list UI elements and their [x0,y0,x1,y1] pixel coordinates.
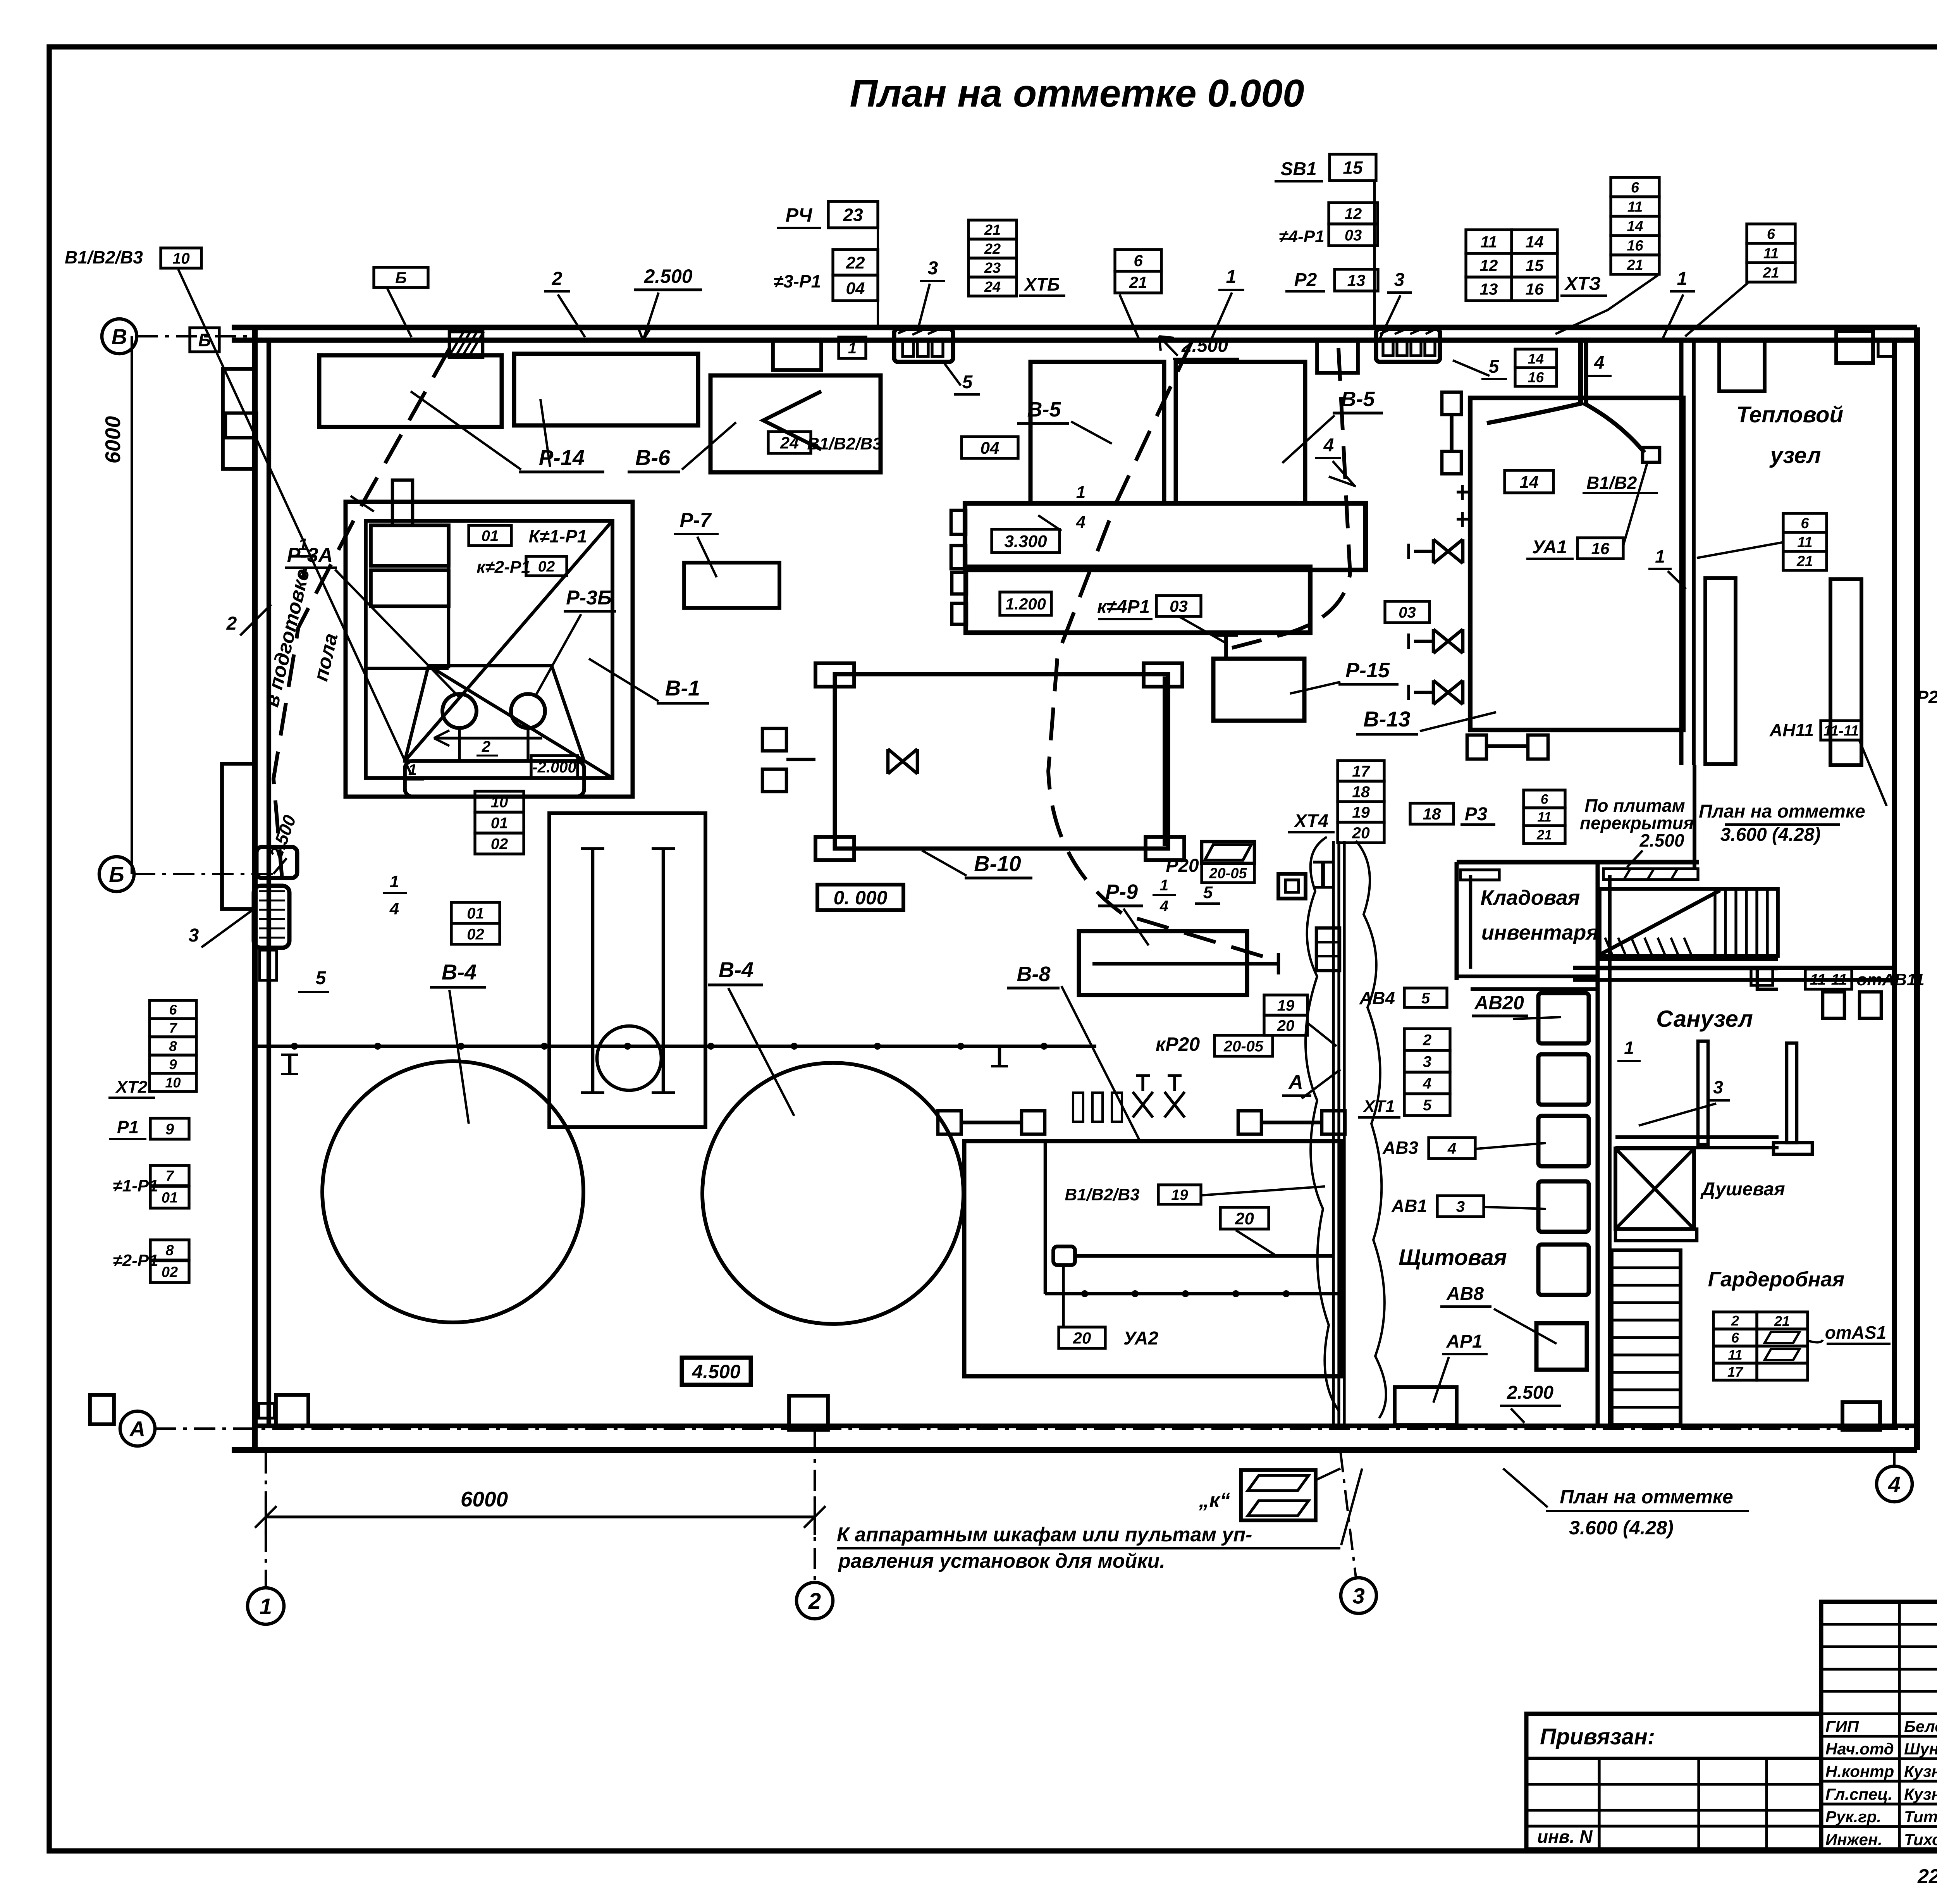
H mark 2 on tank axis [998,1047,1001,1066]
cabinet lower square [1536,1323,1587,1370]
stack B/21 (top) [1115,250,1161,271]
svg-text:Б: Б [395,269,407,287]
svg-text:21: 21 [1626,257,1643,274]
leader B-8 [1061,986,1139,1139]
leader k4P1 to T [1180,617,1226,643]
stack 01/02 (below B-1) [451,902,500,923]
svg-text:В-6: В-6 [635,445,671,470]
leader AV20 [1513,1017,1561,1019]
axis circle 1 (bottom) [248,1588,284,1624]
svg-text:2: 2 [226,613,237,634]
room B-1 partition lines [447,525,451,668]
structure inner line 2 with serifs [662,849,665,1093]
column pad on bottom wall near axis 2 [789,1396,828,1430]
B-8 inner vertical line [1044,1141,1047,1294]
top wall of building (double line) [232,325,1917,331]
svg-text:14: 14 [1526,233,1544,251]
svg-text:21: 21 [1774,1313,1790,1329]
svg-text:6: 6 [1801,515,1809,532]
stack 17/18/19/20 [1338,761,1384,781]
B-8 junction box [1053,1246,1075,1265]
axis A dash-dot line [155,1427,1910,1430]
bottom wall of building (double line) [232,1447,1917,1453]
leader 19/20 [1307,1023,1337,1046]
tank 3.300 end caps [951,510,966,534]
arrow po plitam [1627,850,1643,867]
label 20 box (mid B-8) [1220,1207,1269,1229]
basin B-10 rect [835,674,1168,849]
svg-text:SВ1: SВ1 [1280,159,1316,179]
svg-text:1.200: 1.200 [1005,595,1046,613]
signature table upper rows [1821,1623,1937,1625]
svg-text:Кузнецов: Кузнецов [1904,1785,1937,1803]
svg-text:Рук.гр.: Рук.гр. [1825,1808,1881,1826]
svg-text:11: 11 [1728,1347,1742,1363]
B-8 drop line to UA2 label [1062,1265,1065,1327]
leader otAS1 table [1808,1340,1823,1343]
svg-text:3: 3 [1423,1053,1431,1070]
leader B-1 to room [589,659,659,701]
sanuzel left wall (double) [1596,864,1600,1426]
valve symbol 1 on B-13 wall [1433,539,1463,563]
svg-text:5: 5 [1423,1097,1432,1114]
svg-text:4: 4 [1159,898,1168,915]
axis circle A (bottom-left) [120,1411,155,1446]
svg-text:АВ8: АВ8 [1446,1284,1484,1304]
title block left header row line [1526,1757,1821,1760]
signature table columns [1898,1602,1901,1849]
kladovaya bottom wall [1457,974,1598,978]
svg-text:6000: 6000 [101,416,125,463]
signature table outer [1821,1602,1937,1849]
title block left rows [1526,1783,1821,1785]
equipment AR1 box [1395,1387,1457,1425]
grid 11-16 XT3 [1466,230,1512,253]
equipment P-15 rect [1213,659,1304,721]
B-10 corner pad 2 [1144,663,1182,687]
axis circle 2 (bottom) [796,1582,833,1619]
svg-text:отАS1: отАS1 [1825,1322,1886,1343]
svg-text:3: 3 [1394,270,1405,290]
svg-text:5: 5 [1489,356,1500,377]
svg-text:12: 12 [1345,205,1362,222]
room B-5 right rect [1176,362,1305,503]
svg-text:2: 2 [482,738,490,755]
leader B-5 left [1071,422,1112,444]
post 2 foot [1774,1143,1812,1154]
label 14 B1/B2 (in B-13) [1505,470,1553,493]
kladovaya top wall [1457,860,1699,864]
tank B-4 left circle [322,1061,583,1322]
svg-text:УА1: УА1 [1532,537,1567,558]
svg-text:11-11: 11-11 [1823,723,1859,739]
svg-text:2.500: 2.500 [643,265,692,287]
dimension line 6000 (bottom) [266,1515,815,1518]
leader 1 top [1211,293,1232,341]
column pad on bottom wall near axis 1 [276,1395,308,1426]
route 4 dash line (center) [1232,348,1350,648]
svg-text:Белоус: Белоус [1904,1717,1937,1735]
equipment P-9 rect [1079,931,1247,995]
svg-text:21: 21 [1129,273,1147,291]
svg-text:Душевая: Душевая [1700,1179,1785,1200]
svg-text:23: 23 [843,205,863,225]
svg-text:13: 13 [1480,280,1498,298]
svg-text:16: 16 [1526,280,1544,298]
svg-text:В-5: В-5 [1341,387,1375,411]
leaders P-14 [411,391,521,470]
label 04 box (center) [962,437,1018,458]
leader AR1 [1433,1357,1449,1403]
staircase lower flight [1612,1250,1681,1425]
svg-text:к≠2-Р1: к≠2-Р1 [477,558,530,577]
route tick marks [351,496,374,511]
svg-text:ГИП: ГИП [1825,1717,1859,1735]
svg-text:19: 19 [1171,1187,1188,1203]
structure inner line 1 with serifs [591,849,595,1093]
svg-text:В-4: В-4 [442,960,477,984]
svg-text:узел: узел [1769,443,1821,468]
svg-text:03: 03 [1399,604,1416,621]
svg-text:7: 7 [165,1168,174,1184]
svg-text:6: 6 [1767,226,1775,243]
shower bench [1615,1229,1697,1241]
valve symbol 3 on B-13 wall [1433,680,1463,704]
label 3.300 box [992,529,1060,553]
T-symbol k4P1 [1224,635,1228,661]
svg-text:11: 11 [1537,810,1551,825]
svg-text:8: 8 [169,1038,177,1054]
svg-text:10: 10 [165,1074,181,1090]
tank 3.300 rect [965,503,1366,570]
cloud right side [1356,841,1386,1418]
svg-text:Р3: Р3 [1465,804,1488,825]
equipment P-14 rect 2 [514,354,698,425]
structure rect (between B-1 and tanks) [549,813,705,1127]
leader P-3A to pump [335,570,459,697]
svg-text:План на отметке: План на отметке [1699,801,1865,822]
label B box 2 [374,267,428,287]
svg-text:Тепловой: Тепловой [1736,402,1843,427]
svg-text:1: 1 [390,872,399,891]
svg-text:1: 1 [1076,483,1085,502]
leader P-9 [1123,909,1149,945]
heat unit right pilaster [1830,579,1861,765]
svg-text:В-13: В-13 [1363,707,1410,731]
leader P-7 [697,537,717,577]
svg-text:2: 2 [1731,1313,1739,1329]
room B-1 pit trapezoid [405,666,584,761]
svg-text:20: 20 [1277,1017,1295,1034]
svg-text:16: 16 [1627,238,1643,254]
sanuzel partition post 1 [1698,1041,1708,1145]
svg-text:3.300: 3.300 [1004,532,1047,551]
svg-text:04: 04 [846,279,865,298]
junction square near XT4 [1278,874,1306,899]
leader B box 2 [387,289,411,337]
svg-text:22: 22 [984,241,1001,257]
corridor wall right drop [1757,969,1778,989]
svg-text:2: 2 [552,269,563,289]
label P20 20-05 (floor) [1205,845,1251,860]
svg-text:03: 03 [1170,597,1188,615]
arrow polyline in B-6 [763,391,821,449]
axis circle B (mid-left) [99,857,134,892]
B-10 right wall inner line [1163,677,1166,846]
stack B/11/14/16/21 [1611,177,1659,197]
svg-text:Б: Б [198,330,211,350]
svg-text:4: 4 [1594,353,1605,373]
svg-text:Р2: Р2 [1294,270,1317,290]
leader 5 connector2 [942,360,961,386]
title block outer (left part) [1526,1714,1821,1849]
svg-text:Гл.спец.: Гл.спец. [1825,1785,1892,1803]
svg-text:4.500: 4.500 [692,1361,740,1382]
valve symbol 2 on B-13 wall [1433,629,1463,653]
corridor wall below stairs [1600,957,1778,961]
leader B-6 [682,422,736,470]
svg-text:7: 7 [169,1020,177,1036]
svg-text:21: 21 [1796,553,1813,570]
top-left niche box [225,413,256,438]
arrow 2.500 left wall [274,858,287,874]
svg-text:План на отметке: План на отметке [1560,1486,1733,1508]
leader AV3 [1476,1143,1546,1149]
svg-text:≠4-Р1: ≠4-Р1 [1279,227,1324,246]
I-symbol right [1321,862,1325,887]
svg-text:6000: 6000 [461,1487,508,1511]
svg-text:3: 3 [1713,1077,1723,1097]
left wall connector box 1 (near axis B) [256,847,297,878]
leader B/21 [1120,294,1139,339]
stack 6/11/21 (left of po plitam) [1524,790,1565,808]
pump P-3B circle [511,694,545,728]
dim ticks [255,1506,277,1528]
svg-text:0. 000: 0. 000 [833,887,887,909]
svg-text:6: 6 [1134,251,1143,270]
equipment P-7 rect [684,563,779,608]
label 19/20 stack (cables) [1264,995,1307,1015]
leader from 5-stack [1555,275,1658,334]
pump stems [458,728,461,761]
svg-text:ХТБ: ХТБ [1023,274,1060,294]
svg-text:04: 04 [981,439,999,458]
svg-text:2.500: 2.500 [1181,336,1228,356]
svg-text:1: 1 [1160,877,1168,894]
svg-text:24: 24 [780,434,799,452]
label 12/03 with 4-P1 [1329,203,1378,224]
svg-text:21: 21 [984,222,1001,238]
label 18 P3 flag [1410,803,1454,824]
svg-text:5: 5 [1203,883,1213,902]
svg-text:1: 1 [848,340,857,357]
svg-text:В-8: В-8 [1017,962,1050,986]
axis 3 riser dash [1340,1451,1356,1578]
H mark on tank axis [288,1055,292,1074]
svg-text:4: 4 [1323,435,1334,456]
svg-text:8: 8 [165,1243,174,1259]
left wall small box below connector [260,950,277,980]
stack 6/11/21 (in heat unit) [1783,513,1827,532]
leader B-13 [1420,712,1496,731]
dumbbell symbol left (B-8 yard) [961,1121,1023,1124]
leader B-4 right [728,988,794,1116]
svg-text:Б: Б [109,862,124,887]
room B-5 left rect [1030,362,1164,503]
svg-text:20: 20 [1352,824,1370,842]
svg-text:В1/В2/В3: В1/В2/В3 [1065,1185,1139,1204]
sanuzel mid wall [1615,1135,1779,1139]
leader 2 top [558,294,585,337]
stack 21/22/23/24 XTB [968,220,1017,239]
svg-text:17: 17 [1352,762,1371,780]
small box right of plan [1842,1402,1880,1430]
svg-text:21: 21 [1762,265,1779,281]
svg-text:02: 02 [467,926,484,943]
sanuzel top wall (double) [1573,966,1894,970]
switch cabinet column (5 squares) [1538,993,1589,1043]
svg-text:ХТ2: ХТ2 [115,1078,148,1097]
room B-1 inner cabinet 1 [371,525,449,566]
arrow 2.500 mid [1159,336,1178,356]
svg-text:Р1: Р1 [117,1117,139,1137]
svg-text:19: 19 [1352,803,1370,821]
svg-text:14: 14 [1528,351,1544,367]
axis B dash-dot line [134,873,287,875]
svg-text:1: 1 [1677,269,1688,289]
leader from 22/04 to wall [877,217,879,327]
svg-text:Р20: Р20 [1916,687,1937,707]
sanuzel fixtures on top wall [1823,992,1844,1018]
svg-text:17: 17 [1727,1364,1744,1380]
leader AV1 [1485,1207,1546,1209]
svg-text:6: 6 [1541,792,1548,807]
svg-text:10: 10 [172,250,190,267]
staircase upper flight [1600,889,1778,956]
svg-text:3: 3 [189,925,199,946]
svg-text:В: В [112,324,127,349]
room B-1 inner cabinet 2 [371,570,449,606]
cable bundle cloud outline [1306,837,1338,1410]
top wall opening 2 (niche at x3400) [1317,340,1358,373]
svg-text:2: 2 [808,1589,821,1614]
arrow 2.500 [1511,1408,1524,1423]
svg-text:02: 02 [538,558,555,575]
svg-text:11: 11 [1480,233,1497,251]
svg-text:5: 5 [316,968,327,988]
room B-1 diagonal 1 [405,521,612,761]
svg-text:Р-15: Р-15 [1345,659,1390,682]
svg-text:Титов: Титов [1904,1808,1937,1826]
svg-text:Р-9: Р-9 [1105,880,1138,904]
svg-text:1: 1 [1226,267,1237,287]
svg-text:Шунский: Шунский [1904,1740,1937,1758]
leader 20 [1236,1230,1275,1255]
svg-text:ХТЗ: ХТЗ [1564,274,1601,294]
svg-text:≠3-Р1: ≠3-Р1 [774,271,821,291]
B-10 corner pad 3 [815,837,854,860]
cable fan connector box [1643,448,1660,462]
B-10 corner pad 4 [1146,837,1184,860]
stack B/11/21 (top right) [1747,224,1795,243]
equipment P-14 rect 1 [319,355,502,427]
top wall opening 3 (niche at x4440) [1719,340,1765,391]
B-8 dotted junction line [1045,1292,1340,1296]
svg-text:1: 1 [1624,1038,1634,1058]
label 4.500 box [682,1358,751,1385]
leader to top right stack [1685,283,1748,336]
left wall pilaster (mid) [222,764,255,909]
svg-text:В-4: В-4 [719,957,753,982]
label box 24 B1/B2/B3 in B-6 [768,432,811,453]
room B-1 duct top [392,480,413,525]
label 1.200 box [1000,592,1051,615]
cable bundle vertical (to shchitovaya) [1332,841,1335,1426]
B-10 corner pad 1 [815,663,854,687]
cable fan right branch [1583,403,1645,453]
svg-text:инвентаря: инвентаря [1481,921,1598,944]
top-left exterior niche [223,369,255,469]
svg-text:14: 14 [1520,473,1539,492]
leader B-10 [922,850,967,876]
route 1 dash line (left) [274,349,449,878]
svg-text:4: 4 [389,899,399,918]
leader B-4 left [449,990,469,1124]
svg-text:15: 15 [1343,158,1363,178]
leader 5 strip [1453,360,1490,376]
leader P-15 [1290,682,1340,694]
box on top wall right section [1836,331,1873,363]
svg-text:Р20: Р20 [1166,856,1199,876]
svg-text:Тихонова: Тихонова [1904,1830,1937,1849]
svg-text:16: 16 [1591,539,1610,558]
svg-text:В1/В2/В3: В1/В2/В3 [807,434,882,453]
svg-text:Н.контр: Н.контр [1825,1762,1894,1780]
label B box on wall (left) [190,328,219,352]
big connector on top wall (axis 2) [894,329,953,362]
svg-text:02: 02 [491,835,508,852]
leader B-5 right [1282,415,1335,463]
svg-text:20: 20 [1073,1329,1091,1347]
svg-text:21: 21 [1536,828,1552,843]
second 03 box (route) [1385,601,1430,623]
svg-text:6: 6 [1731,1330,1739,1346]
svg-text:01: 01 [482,527,499,544]
svg-text:3: 3 [928,258,938,279]
svg-text:А: А [1288,1071,1303,1093]
svg-text:Р-7: Р-7 [680,509,712,532]
axis circle 4 (bottom right) [1877,1466,1912,1502]
label -2.000 box [531,756,578,778]
pit arrow line [434,737,542,739]
svg-text:16: 16 [1528,369,1544,385]
stack 4/3/4/5 + XT1 [1404,1029,1450,1050]
small risers near B-8 top [1073,1093,1083,1122]
stack 10/01/02 (below B-1) [475,791,524,812]
svg-text:10: 10 [491,794,508,811]
left vertical dimension line V-B [131,336,133,874]
svg-text:„к“: „к“ [1198,1489,1230,1512]
dumbbell symbol right (B-8 yard) [1261,1121,1323,1124]
detached pad left of building (bottom) [90,1395,114,1424]
leader B1B2B3-10 long diagonal [178,269,411,775]
vertical dumbbell left of B-13 [1450,415,1454,451]
shower stall with X [1615,1148,1694,1229]
svg-text:22529-04 ‵40 копировал:: 22529-04 ‵40 копировал: [1917,1865,1937,1888]
svg-text:к≠4Р1: к≠4Р1 [1097,597,1150,617]
terminal strip connector on top wall [1376,329,1440,362]
label 0.000 box [817,885,903,910]
